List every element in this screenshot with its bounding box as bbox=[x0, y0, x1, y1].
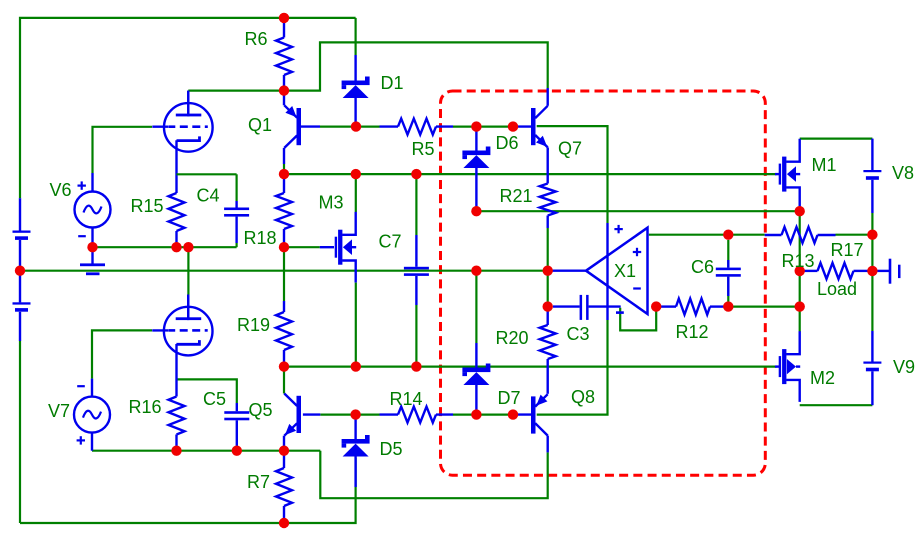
resistor R16 bbox=[169, 397, 185, 451]
junction dot (547.7,306.6) bbox=[543, 301, 553, 311]
svg-text:V8: V8 bbox=[892, 163, 914, 183]
MOSFET M2 bbox=[779, 331, 801, 402]
wire V9 top riser bbox=[871, 271, 873, 331]
svg-text:C7: C7 bbox=[378, 232, 401, 252]
svg-text:D7: D7 bbox=[497, 388, 520, 408]
wire V7 leads bbox=[91, 379, 93, 451]
wire M1 drain top rail bbox=[800, 138, 873, 140]
svg-text:C5: C5 bbox=[203, 389, 226, 409]
wire M1 gate stub bbox=[775, 173, 779, 175]
svg-text:R14: R14 bbox=[389, 389, 422, 409]
wire C4 top rail bbox=[177, 173, 237, 175]
wire Q1 base stub bbox=[300, 125, 320, 127]
transistor Q5 bbox=[284, 394, 301, 451]
junction dot (799.7,211.2) bbox=[795, 206, 805, 216]
wire R12 to M2 drain node bbox=[733, 306, 800, 308]
wire Q8 collector return path bbox=[320, 451, 547, 499]
svg-text:Load: Load bbox=[817, 279, 857, 299]
label D7 bbox=[497, 388, 520, 408]
capacitor C3 bbox=[553, 295, 621, 320]
junction dot (284,174.1) bbox=[279, 169, 289, 179]
V7 minus mark bbox=[77, 385, 85, 387]
svg-text:R6: R6 bbox=[244, 29, 267, 49]
junction dot (355.6,414.6) bbox=[350, 409, 360, 419]
junction dot (284,247.2) bbox=[279, 242, 289, 252]
svg-text:D5: D5 bbox=[379, 439, 402, 459]
label Load bbox=[817, 279, 857, 299]
label Q1 bbox=[248, 115, 272, 135]
wire second top rail to Q7 collector bbox=[188, 42, 547, 90]
label D5 bbox=[379, 439, 402, 459]
transistor Q7 bbox=[531, 88, 548, 150]
junction dot (513,126.6) bbox=[508, 121, 518, 131]
dashed selection box bbox=[441, 91, 766, 475]
svg-text:R15: R15 bbox=[130, 196, 163, 216]
junction dot (284,90.6) bbox=[279, 85, 289, 95]
wire M2 drain riser bbox=[799, 271, 801, 332]
svg-text:V6: V6 bbox=[49, 180, 71, 200]
junction dot (656.2,306.6) bbox=[651, 301, 661, 311]
label Q5 bbox=[248, 400, 272, 420]
junction dot (176.5,450.7) bbox=[171, 446, 181, 456]
transistor Q1 bbox=[284, 91, 301, 175]
wire R18-R19 column bbox=[283, 247, 285, 301]
junction dot (416.4,174.1) bbox=[411, 169, 421, 179]
svg-text:Q7: Q7 bbox=[558, 139, 582, 159]
wire Q5 collector riser bbox=[283, 367, 285, 394]
junction dot (872.4,234.7) bbox=[867, 230, 877, 240]
svg-text:C4: C4 bbox=[196, 186, 219, 206]
resistor R14 bbox=[380, 407, 454, 423]
junction dot (284,366.6) bbox=[279, 361, 289, 371]
svg-text:V9: V9 bbox=[893, 357, 915, 377]
wire rail y=211 bbox=[476, 210, 799, 212]
diode D1 bbox=[342, 55, 370, 127]
label R14 bbox=[389, 389, 422, 409]
junction dot (176.5,247.2) bbox=[171, 242, 181, 252]
MOSFET M1 bbox=[779, 139, 801, 210]
wire upper base rail segment b bbox=[453, 125, 513, 127]
svg-text:M1: M1 bbox=[811, 155, 836, 175]
junction dot (799.7,270.9) bbox=[795, 266, 805, 276]
op-amp X1 bbox=[553, 223, 648, 320]
junction dot (416.4,366.6) bbox=[411, 361, 421, 371]
label M1 bbox=[811, 155, 836, 175]
wire Q8 base stub bbox=[513, 413, 531, 415]
wire V6 leads bbox=[91, 173, 93, 247]
label R19 bbox=[237, 315, 270, 335]
wire lower base rail segment b bbox=[453, 414, 513, 416]
svg-text:Q8: Q8 bbox=[571, 387, 595, 407]
battery B1 upper left bbox=[13, 198, 31, 271]
wire mid rail (y=270.7) bbox=[20, 270, 548, 272]
label C6 bbox=[691, 257, 714, 277]
wire upper base rail segment a bbox=[320, 125, 380, 127]
svg-text:R16: R16 bbox=[128, 397, 161, 417]
label R12 bbox=[675, 322, 708, 342]
wire V6 minus node rail bbox=[93, 246, 237, 248]
junction dot (476.4,211.2) bbox=[471, 206, 481, 216]
label R7 bbox=[247, 472, 270, 492]
label V8 bbox=[892, 163, 914, 183]
wire tube2 cathode lead bbox=[175, 344, 177, 397]
wire +input column lower half bbox=[537, 320, 608, 415]
junction dot (799.7,306.6) bbox=[795, 301, 805, 311]
junction dot (92.5,247.2) bbox=[87, 242, 97, 252]
junction dot (356,126.6) bbox=[351, 121, 361, 131]
wire top V+ rail bbox=[20, 18, 356, 198]
label C7 bbox=[378, 232, 401, 252]
wire left spine lower bbox=[19, 341, 21, 523]
label R18 bbox=[243, 228, 276, 248]
wire R21 bottom to mid rail bbox=[547, 228, 549, 271]
label C5 bbox=[203, 389, 226, 409]
svg-text:V7: V7 bbox=[48, 401, 70, 421]
label Q8 bbox=[571, 387, 595, 407]
wire gate rail M2 (y=366.6) bbox=[284, 366, 777, 368]
resistor R13 bbox=[765, 227, 836, 243]
wire R13 column crossing bbox=[799, 211, 801, 271]
wire Q7 base right loop to +input column bbox=[537, 126, 608, 223]
capacitor C7 bbox=[404, 235, 429, 305]
V6 plus mark bbox=[78, 181, 86, 189]
wire tube2 anode lead bbox=[187, 295, 189, 319]
wire tube1 anode stub bbox=[187, 91, 189, 93]
svg-text:R18: R18 bbox=[243, 228, 276, 248]
svg-text:C3: C3 bbox=[566, 324, 589, 344]
V7 plus mark bbox=[77, 436, 85, 444]
junction dot (20,270.7) bbox=[15, 266, 25, 276]
svg-text:R19: R19 bbox=[237, 315, 270, 335]
junction dot (476.4,414.6) bbox=[471, 409, 481, 419]
wire D1 top riser bbox=[355, 18, 357, 55]
transistor Q8 bbox=[531, 394, 548, 452]
wire tube1 anode lead bbox=[187, 91, 189, 114]
wire M3 gate stub bbox=[320, 246, 334, 248]
label V7 bbox=[48, 401, 70, 421]
wire V7 emitter rail bbox=[92, 450, 320, 452]
wire V7 grid link bbox=[92, 330, 152, 378]
wire R18 to M3 gate bbox=[284, 246, 320, 248]
wire tube1 cathode lead bbox=[175, 140, 177, 193]
junction dot (872.4,270.9) bbox=[867, 266, 877, 276]
wire C7 top riser bbox=[415, 174, 417, 235]
capacitor C6 bbox=[716, 240, 741, 302]
junction dot (476.4,270.7) bbox=[471, 266, 481, 276]
wire gate rail M1 (y=174) bbox=[284, 173, 777, 175]
junction dot (188.4,247.2) bbox=[183, 242, 193, 252]
wire R13 right to V8 node bbox=[836, 234, 873, 236]
resistor R18 bbox=[276, 174, 292, 247]
wire Q7 base stub bbox=[513, 125, 531, 127]
wire V8-node to R17 node bbox=[871, 235, 873, 271]
svg-text:M3: M3 bbox=[318, 193, 343, 213]
resistor R17 bbox=[805, 263, 869, 279]
wire C4 link bbox=[236, 243, 238, 247]
label R13 bbox=[781, 251, 814, 271]
label X1 bbox=[614, 261, 636, 281]
battery B2 lower left bbox=[13, 271, 31, 341]
svg-text:X1: X1 bbox=[614, 261, 636, 281]
junction dot (284,450.7) bbox=[279, 446, 289, 456]
probe terminal bbox=[878, 259, 901, 284]
resistor R15 bbox=[169, 193, 185, 247]
wire C7 bottom riser bbox=[415, 305, 417, 367]
svg-text:R5: R5 bbox=[411, 139, 434, 159]
resistor R7 bbox=[276, 451, 292, 523]
label C3 bbox=[566, 324, 589, 344]
label D6 bbox=[495, 133, 518, 153]
label D1 bbox=[380, 73, 403, 93]
wire V6 grid link bbox=[93, 127, 153, 173]
wire node rail to lower tube anode bbox=[187, 247, 189, 294]
label R6 bbox=[244, 29, 267, 49]
junction dot (284,17.9) bbox=[279, 13, 289, 23]
svg-text:R17: R17 bbox=[830, 240, 863, 260]
junction dot (284,523) bbox=[279, 518, 289, 528]
label M2 bbox=[810, 368, 835, 388]
wire mid rail dot to C3 node bbox=[547, 271, 549, 302]
junction dot (476.4,126.6) bbox=[471, 121, 481, 131]
svg-text:R7: R7 bbox=[247, 472, 270, 492]
svg-text:C6: C6 bbox=[691, 257, 714, 277]
svg-text:Q1: Q1 bbox=[248, 115, 272, 135]
resistor R5 bbox=[380, 119, 454, 135]
triode U2 (lower) bbox=[152, 295, 212, 356]
V6 minus mark bbox=[78, 235, 86, 237]
wire op-amp top pin rail y=234.7 bbox=[649, 234, 765, 236]
svg-text:R21: R21 bbox=[499, 186, 532, 206]
svg-text:R12: R12 bbox=[675, 322, 708, 342]
label R5 bbox=[411, 139, 434, 159]
wire lower base rail segment a bbox=[320, 414, 379, 416]
label V6 bbox=[49, 180, 71, 200]
junction dot (728.3,306.6) bbox=[723, 301, 733, 311]
wire inverting input loop bbox=[620, 308, 656, 331]
label R20 bbox=[495, 328, 528, 348]
wire M2 gate stub bbox=[775, 365, 779, 367]
capacitor C5 bbox=[224, 403, 249, 451]
label R21 bbox=[499, 186, 532, 206]
label R15 bbox=[130, 196, 163, 216]
resistor R6 bbox=[276, 18, 292, 91]
label R16 bbox=[128, 397, 161, 417]
label M3 bbox=[318, 193, 343, 213]
wire M3 drain riser bbox=[355, 174, 357, 212]
wire D7 riser bbox=[475, 271, 477, 343]
label C4 bbox=[196, 186, 219, 206]
svg-text:Q5: Q5 bbox=[248, 400, 272, 420]
wire M3 source riser bbox=[355, 283, 357, 367]
svg-text:D1: D1 bbox=[380, 73, 403, 93]
wire M2 source to V9 bbox=[800, 404, 873, 406]
label V9 bbox=[893, 357, 915, 377]
source V6 bbox=[75, 192, 111, 228]
label Q7 bbox=[558, 139, 582, 159]
junction dot (236.8,450.7) bbox=[232, 446, 242, 456]
wire C5 tee bbox=[177, 379, 237, 403]
battery V9 bbox=[863, 331, 881, 405]
wire Q5 base stub bbox=[303, 413, 320, 415]
source V7 bbox=[74, 397, 110, 433]
svg-text:D6: D6 bbox=[495, 133, 518, 153]
resistor R21 bbox=[540, 149, 556, 229]
resistor R12 bbox=[661, 299, 724, 315]
junction dot (513,414.6) bbox=[508, 409, 518, 419]
junction dot (355.8,366.6) bbox=[351, 361, 361, 371]
wire C4 drop bbox=[236, 174, 238, 201]
wire D5 anode riser bbox=[355, 458, 357, 487]
MOSFET M3 bbox=[335, 212, 357, 283]
capacitor C4 bbox=[224, 201, 249, 243]
battery V8 bbox=[863, 139, 881, 213]
svg-text:R20: R20 bbox=[495, 328, 528, 348]
junction dot (728.3,234.7) bbox=[723, 230, 733, 240]
resistor R19 bbox=[276, 301, 292, 367]
junction dot (547.7,270.7) bbox=[543, 266, 553, 276]
svg-text:M2: M2 bbox=[810, 368, 835, 388]
svg-text:R13: R13 bbox=[781, 251, 814, 271]
junction dot (355.8,174.1) bbox=[351, 169, 361, 179]
label R17 bbox=[830, 240, 863, 260]
wire bottom rail bbox=[20, 487, 356, 523]
diode D7 bbox=[462, 343, 490, 415]
resistor R20 bbox=[540, 311, 556, 394]
ground bbox=[80, 250, 105, 275]
wire V8 bottom to R13 rail bbox=[871, 213, 873, 235]
diode D6 bbox=[462, 132, 490, 212]
triode U1 (upper) bbox=[152, 91, 212, 152]
diode D5 bbox=[342, 415, 370, 487]
